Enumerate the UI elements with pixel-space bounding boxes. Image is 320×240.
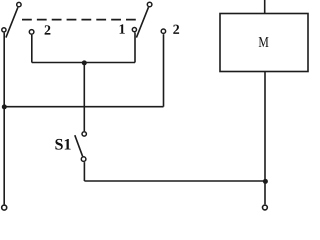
switch S1 bottom contact circle [81, 157, 86, 162]
node A junction dot [82, 60, 87, 65]
label S1 (digit 1) [65, 139, 71, 150]
wire horizontal from left-rail node B to right contact 2 riser [4, 106, 163, 108]
blade tip circle (right pole) [147, 2, 152, 7]
label S1 (letter S) [55, 139, 62, 150]
wire bottom horizontal from S1 to node C [84, 180, 265, 182]
left terminal circle [2, 205, 7, 210]
wire from node A down to switch S1 [83, 63, 85, 132]
wire from contact 1 (right pole) down to node row [134, 33, 136, 63]
switch S1 blade [75, 135, 83, 156]
mechanical link (dashed) between ganged switch blades [22, 19, 136, 21]
label 2 (right pole contact) [173, 25, 179, 34]
motor M box [220, 14, 308, 72]
wire from contact 2 (left pole) down to node row [31, 35, 33, 63]
contact circle 2 (left pole) [29, 30, 34, 35]
contact circle 2 (right pole) [161, 29, 165, 33]
wire from S1 bottom contact down [83, 162, 85, 181]
node B junction dot (left rail) [2, 104, 7, 109]
wire from motor M bottom down to right terminal [264, 71, 266, 204]
wire horizontal joining contact 2 and contact 1 risers [32, 62, 135, 64]
node C junction dot (bottom right) [263, 179, 268, 184]
switch blade (left pole of ganged switch) [6, 7, 18, 37]
wire left rail (left pole contact down to left terminal) [3, 33, 5, 205]
contact circle 1 (right pole) [132, 28, 136, 32]
right terminal circle [263, 205, 268, 210]
wire from motor M top to top edge of figure [264, 0, 266, 14]
blade tip circle (left pole) [17, 2, 21, 6]
switch blade (right pole of ganged switch) [136, 7, 148, 37]
contact circle on left rail (left pole) [2, 28, 6, 32]
wire riser up to contact 2 (right pole) [163, 34, 165, 107]
label 2 (left pole contact) [45, 25, 51, 34]
switch S1 top contact circle [82, 132, 86, 136]
label 1 (right pole contact) [120, 24, 125, 33]
label M (motor) [259, 37, 269, 47]
